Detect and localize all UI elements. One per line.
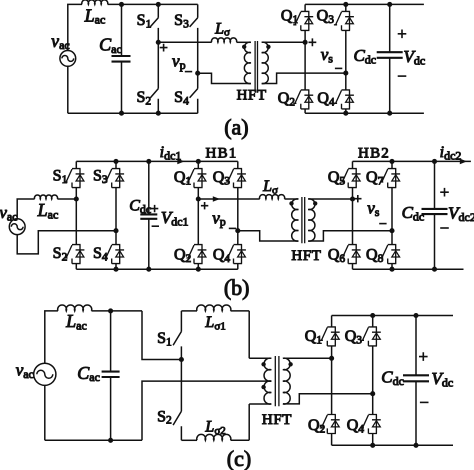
transistor Q6 (b) xyxy=(341,245,361,264)
transistor Q6 stub (b) xyxy=(352,199,354,269)
wire top rail to corner (c) xyxy=(92,311,182,360)
svg-text:Vdc: Vdc xyxy=(403,47,425,67)
junction Q1-Q2 node (b) xyxy=(196,196,201,201)
transformer primary winding upper (c) xyxy=(264,358,271,381)
transformer primary winding (a) xyxy=(244,42,251,84)
transformer primary winding (b) xyxy=(292,199,299,241)
switch S2 (c) xyxy=(173,360,181,441)
svg-text:Lσ: Lσ xyxy=(214,20,230,38)
transistor Q2 (c) xyxy=(320,415,340,434)
svg-text:vac: vac xyxy=(16,361,34,381)
current arrow i_dc2 (b) xyxy=(460,159,467,165)
inductor L_sigma (a) xyxy=(212,38,237,42)
junction v_s plus node (b) xyxy=(350,196,355,201)
svg-text:S2: S2 xyxy=(136,89,151,107)
svg-text:idc1: idc1 xyxy=(160,144,182,162)
junction Q8 bottom (b) xyxy=(389,267,394,272)
minus sign V_dc (a) xyxy=(398,75,407,77)
svg-text:HB1: HB1 xyxy=(206,146,238,162)
wire Q3 top stub (a) xyxy=(345,4,347,11)
svg-text:S1: S1 xyxy=(137,12,152,30)
svg-text:HFT: HFT xyxy=(237,88,267,104)
capacitor C_dc HB2 (b) xyxy=(434,161,436,269)
ac source v_ac branch wire (b) xyxy=(17,199,116,254)
junction Q3 top (c) xyxy=(370,313,375,318)
switch S4 (a) xyxy=(190,73,198,113)
switch S2 (a) xyxy=(150,42,158,113)
wire top rail right (a) xyxy=(305,3,424,5)
inductor L_sigma2 (c) xyxy=(197,434,231,440)
junction v_s plus node (a) xyxy=(303,40,308,45)
svg-text:vs: vs xyxy=(321,45,334,65)
svg-text:Q2: Q2 xyxy=(278,90,296,108)
secondary polarity dot (a) xyxy=(266,45,270,49)
svg-text:idc2: idc2 xyxy=(440,144,462,162)
wire secondary bottom jog to node (a) xyxy=(262,73,346,83)
wire Q4 bottom stub (a) xyxy=(345,109,347,113)
wire bottom rail right (a) xyxy=(305,112,424,114)
transistor Q3 stub (b) xyxy=(237,161,239,230)
wire S2 to L_sigma2 (c) xyxy=(181,439,197,441)
junction secondary top node (c) xyxy=(329,356,334,361)
junction C_ac bottom (c) xyxy=(108,438,113,443)
plus sign v_p (a) xyxy=(160,44,168,52)
svg-text:Lac: Lac xyxy=(37,200,59,221)
svg-text:(b): (b) xyxy=(224,275,250,300)
junction C_dc bottom (a) xyxy=(387,111,392,116)
svg-text:Lσ: Lσ xyxy=(262,178,278,196)
junction v_s minus node (a) xyxy=(343,71,348,76)
svg-text:Q3: Q3 xyxy=(345,328,363,346)
switch S2 (b) xyxy=(64,245,84,264)
svg-text:Cdc: Cdc xyxy=(129,198,151,216)
junction C_ac bottom (a) xyxy=(119,111,124,116)
transformer secondary winding (b) xyxy=(308,199,315,241)
svg-text:HFT: HFT xyxy=(262,412,292,428)
junction Q3-Q4 node (b) xyxy=(235,228,240,233)
plus sign v_p (b) xyxy=(201,202,208,209)
wire L_sigma to primary (a) xyxy=(237,41,251,43)
inductor L_ac (b) xyxy=(34,195,57,199)
ac source v_ac (a) xyxy=(60,51,76,67)
svg-text:Q7: Q7 xyxy=(366,169,384,187)
wire top rail HB2 (b) xyxy=(353,160,471,162)
junction S4 bottom (b) xyxy=(113,267,118,272)
wire bottom rail left (b) xyxy=(76,268,238,270)
plus sign V_dc2 (b) xyxy=(440,188,449,197)
wire v_p minus node to primary bottom (b) xyxy=(238,231,299,241)
transistor Q4 (a) xyxy=(334,90,354,109)
svg-text:S2: S2 xyxy=(157,408,172,426)
minus sign v_p (b) xyxy=(229,227,236,229)
svg-text:Vdc: Vdc xyxy=(432,369,454,389)
wire L_sigma1 to primary top (c) xyxy=(231,311,272,358)
primary upper polarity dot (c) xyxy=(261,362,265,366)
current arrow i_dc1 (b) xyxy=(177,159,184,165)
wire secondary bottom jog (b) xyxy=(308,231,392,241)
transistor Q4 stub (b) xyxy=(237,231,239,270)
svg-text:Q1: Q1 xyxy=(174,169,192,187)
wire Q2 bottom stub (a) xyxy=(304,109,306,113)
svg-text:Q6: Q6 xyxy=(328,246,346,264)
wire Q2 top stub (a) xyxy=(304,42,306,90)
svg-text:Q3: Q3 xyxy=(317,7,335,25)
junction Q3 top (a) xyxy=(343,2,348,7)
switch S1 (b) xyxy=(64,169,84,188)
junction C_dc bottom (c) xyxy=(413,443,418,448)
transistor Q2 stub (c) xyxy=(331,358,333,445)
current arrow v_p (b) xyxy=(213,196,220,202)
transistor Q4 (b) xyxy=(226,245,246,264)
svg-text:vac: vac xyxy=(0,203,18,223)
transformer secondary winding (c) xyxy=(283,358,290,404)
transistor Q1 stub (b) xyxy=(197,161,199,199)
wire Q1 bottom stub (a) xyxy=(304,30,306,42)
junction secondary bottom node (c) xyxy=(370,391,375,396)
transistor Q3 stub (c) xyxy=(372,316,374,394)
svg-text:Cdc: Cdc xyxy=(353,46,376,66)
transistor Q1 (a) xyxy=(293,11,313,30)
wire secondary top to bridge (c) xyxy=(283,357,332,359)
transistor Q3 (c) xyxy=(361,327,381,346)
junction Q2 bottom (b) xyxy=(196,267,201,272)
transformer secondary winding (a) xyxy=(262,42,269,84)
switch S2 stub (b) xyxy=(75,199,77,269)
transistor Q7 stub (b) xyxy=(391,161,393,230)
svg-text:Q4: Q4 xyxy=(317,90,335,108)
transformer core (c) xyxy=(275,356,279,406)
junction C_dc top (c) xyxy=(413,313,418,318)
transistor Q5 stub (b) xyxy=(352,161,354,199)
transistor Q2 (b) xyxy=(186,245,206,264)
switch S3 stub (b) xyxy=(115,161,117,230)
junction v_s minus node (b) xyxy=(389,228,394,233)
secondary polarity dot (c) xyxy=(288,362,292,366)
transistor Q2 (a) xyxy=(293,90,313,109)
transistor Q2 stub (b) xyxy=(197,199,199,269)
wire L_ac to S1S2 node (b) xyxy=(57,198,76,200)
wire top rail bridge (c) xyxy=(332,315,453,317)
svg-text:S4: S4 xyxy=(93,245,108,263)
svg-text:Q1: Q1 xyxy=(305,328,323,346)
capacitor C_ac (a) xyxy=(121,4,123,113)
switch S3 (b) xyxy=(104,169,124,188)
wire node A to L_sigma (a) xyxy=(158,41,211,43)
junction S2 bottom (a) xyxy=(156,111,161,116)
junction S1 top (a) xyxy=(156,2,161,7)
capacitor C_dc (c) xyxy=(415,316,417,446)
svg-text:Q2: Q2 xyxy=(174,246,192,264)
capacitor C_dc1 (b) xyxy=(148,161,150,269)
svg-text:S4: S4 xyxy=(174,89,189,107)
svg-text:S1: S1 xyxy=(157,330,172,348)
svg-text:Q2: Q2 xyxy=(308,417,326,435)
junction S3-S4 node (b) xyxy=(113,228,118,233)
svg-text:HFT: HFT xyxy=(291,248,321,264)
switch S1 (c) xyxy=(173,311,181,360)
svg-text:Q4: Q4 xyxy=(347,417,365,435)
transistor Q1 (b) xyxy=(186,169,206,188)
minus sign V_dc (c) xyxy=(420,401,429,403)
switch S4 stub (b) xyxy=(115,231,117,270)
wire top rail left (a) xyxy=(108,3,198,5)
wire secondary top to HB2 (b) xyxy=(308,198,352,200)
svg-text:HB2: HB2 xyxy=(358,145,390,161)
svg-text:Cac: Cac xyxy=(77,363,100,384)
wire secondary top to bridge (a) xyxy=(262,41,305,43)
transistor Q4 stub (c) xyxy=(372,394,374,446)
transistor Q1 stub (c) xyxy=(331,316,333,359)
minus sign v_s (a) xyxy=(335,67,342,69)
switch S3 (a) xyxy=(190,4,198,73)
transistor Q7 (b) xyxy=(380,169,400,188)
wire node B to primary bottom (a) xyxy=(198,73,251,83)
inductor L_sigma1 (c) xyxy=(197,305,231,311)
ac source v_ac (c) xyxy=(34,363,56,385)
minus sign v_p (a) xyxy=(185,71,192,73)
wire bottom rail bridge (c) xyxy=(332,444,453,446)
transformer core (a) xyxy=(255,41,257,93)
junction C_dc1 bottom (b) xyxy=(146,267,151,272)
minus sign V_dc2 (b) xyxy=(440,227,449,229)
svg-text:S3: S3 xyxy=(174,12,189,30)
svg-text:Cdc: Cdc xyxy=(381,368,404,388)
transistor Q3 (b) xyxy=(226,169,246,188)
svg-text:S3: S3 xyxy=(93,168,108,186)
switch S4 (b) xyxy=(104,245,124,264)
switch S1 stub (b) xyxy=(75,161,77,199)
secondary polarity dot (b) xyxy=(313,201,317,205)
plus sign v_s (b) xyxy=(354,195,361,202)
svg-text:Q4: Q4 xyxy=(213,246,231,264)
svg-text:Cdc: Cdc xyxy=(402,203,425,223)
wire Q1 top stub (a) xyxy=(304,4,306,11)
primary polarity dot (a) xyxy=(242,45,246,49)
svg-text:Lac: Lac xyxy=(65,311,87,332)
svg-text:Q8: Q8 xyxy=(366,246,384,264)
junction S1-S2 common node (c) xyxy=(179,357,184,362)
svg-text:Lσ1: Lσ1 xyxy=(204,314,225,332)
wire S1 to L_sigma1 (c) xyxy=(181,310,197,312)
inductor L_ac (c) xyxy=(58,305,92,311)
transistor Q1 (c) xyxy=(320,327,340,346)
wire top rail left (b) xyxy=(76,160,238,162)
transformer core (b) xyxy=(302,197,305,243)
minus sign V_dc1 (b) xyxy=(152,225,159,227)
node B junction (a) xyxy=(195,71,200,76)
junction C_dc1 top (b) xyxy=(146,159,151,164)
svg-text:Vdc2: Vdc2 xyxy=(448,204,474,224)
capacitor C_ac (c) xyxy=(110,311,112,440)
svg-text:Q3: Q3 xyxy=(213,169,231,187)
svg-text:S2: S2 xyxy=(53,245,68,263)
inductor L_sigma (b) xyxy=(260,195,285,199)
svg-text:vp: vp xyxy=(212,208,226,228)
plus sign V_dc (c) xyxy=(419,352,428,361)
junction S1-S2 node (b) xyxy=(74,196,79,201)
plus sign V_dc (a) xyxy=(398,30,407,39)
svg-text:Cac: Cac xyxy=(99,35,122,56)
svg-text:Lac: Lac xyxy=(84,5,106,26)
junction C_dc bottom (b) xyxy=(432,267,437,272)
svg-text:vs: vs xyxy=(367,199,380,219)
circuit (a) ac source v_ac branch wire xyxy=(68,4,82,113)
inductor L_ac (a) xyxy=(82,0,108,4)
svg-text:Q1: Q1 xyxy=(281,7,299,25)
transistor Q5 (b) xyxy=(341,169,361,188)
junction C_ac top (a) xyxy=(119,2,124,7)
junction C_dc top (a) xyxy=(387,2,392,7)
minus sign v_s (b) xyxy=(379,223,386,225)
svg-text:(a): (a) xyxy=(224,115,248,140)
capacitor C_dc (a) xyxy=(389,4,391,113)
svg-text:vac: vac xyxy=(51,31,69,52)
junction Q7 top (b) xyxy=(389,159,394,164)
transistor Q8 stub (b) xyxy=(391,231,393,270)
transistor Q8 (b) xyxy=(380,245,400,264)
junction C_dc top (b) xyxy=(432,159,437,164)
junction Q4 bottom (a) xyxy=(343,111,348,116)
svg-text:(c): (c) xyxy=(227,446,251,470)
primary polarity dot (b) xyxy=(289,201,293,205)
plus sign v_s (a) xyxy=(309,38,317,46)
svg-text:Lσ2: Lσ2 xyxy=(204,419,225,437)
junction Q1 top (b) xyxy=(196,159,201,164)
wire bottom rail HB2 (b) xyxy=(353,268,464,270)
wire secondary bottom jog (c) xyxy=(283,394,373,404)
svg-text:Vdc1: Vdc1 xyxy=(161,208,189,228)
transformer primary winding lower (c) xyxy=(264,381,271,404)
primary lower polarity dot (c) xyxy=(261,385,265,389)
wire bottom rail left (a) xyxy=(68,112,198,114)
wire L_sigma2 to primary bottom (c) xyxy=(231,404,272,440)
junction S3 top (b) xyxy=(113,159,118,164)
transistor Q3 (a) xyxy=(334,11,354,30)
svg-text:Q5: Q5 xyxy=(328,169,346,187)
transistor Q4 (c) xyxy=(361,415,381,434)
junction C_ac top (c) xyxy=(108,308,113,313)
node A junction (a) xyxy=(156,40,161,45)
wire Q4 top stub (a) xyxy=(345,73,347,90)
wire bottom rail (c) xyxy=(45,381,271,440)
switch S1 (a) xyxy=(150,4,158,42)
ac source v_ac (b) xyxy=(9,219,25,235)
ac source branch wire (c) xyxy=(45,311,58,440)
wire L_sigma to primary (b) xyxy=(285,198,299,200)
wire v_p node to L_sigma (b) xyxy=(198,198,259,200)
plus sign V_dc1 (b) xyxy=(151,205,158,212)
wire Q3 bottom stub (a) xyxy=(345,30,347,73)
svg-text:vp: vp xyxy=(172,52,186,72)
svg-text:S1: S1 xyxy=(53,168,68,186)
junction Q4 bottom (c) xyxy=(370,443,375,448)
